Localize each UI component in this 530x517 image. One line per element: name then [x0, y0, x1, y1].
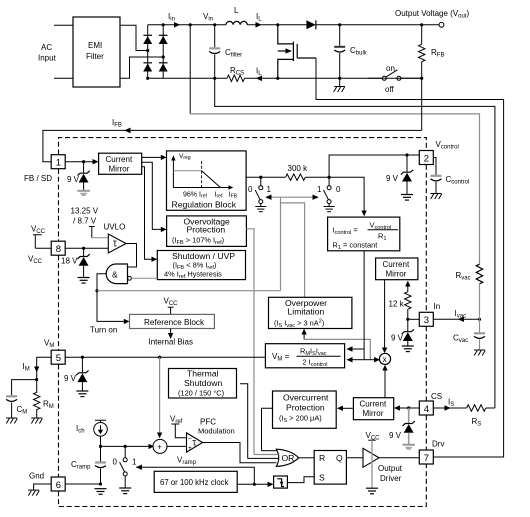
graph dashed threshold [201, 161, 203, 188]
wire RFB to IFB line [421, 78, 423, 130]
junction bridge top right [162, 23, 165, 26]
wire AC input bottom [54, 77, 73, 79]
svg-text:+: + [157, 443, 162, 452]
wire pin2 to switch node [329, 155, 419, 177]
driver buffer [363, 448, 379, 467]
wire CM3 to overcurrent [342, 407, 353, 409]
arrow into overpower bottom [303, 334, 305, 340]
wire Icontrol to multiplier and VM [363, 251, 365, 360]
svg-text:−: − [188, 436, 192, 443]
svg-text:Output: Output [378, 464, 403, 473]
svg-text:0: 0 [113, 458, 118, 467]
ground 9V pin5 [76, 391, 88, 397]
junction bridge left mid [146, 49, 149, 52]
junction pin6 wire [99, 482, 102, 485]
ground Cvac [474, 350, 485, 356]
zener 9V pin4 (gray) [403, 408, 415, 450]
ground ramp switch [119, 488, 131, 494]
junction RFB top [420, 23, 423, 26]
capacitor Cramp [95, 446, 106, 484]
ground driver [366, 488, 378, 494]
pin 1 FB/SD [51, 155, 65, 169]
resistor RCS [227, 75, 244, 81]
comparator PFC modulation [187, 433, 203, 452]
svg-text:R: R [319, 453, 325, 463]
Vcc tap driver [368, 439, 375, 441]
junction Cbulk top [338, 23, 341, 26]
svg-text:300 k: 300 k [288, 164, 309, 173]
wire comparator to OR [203, 443, 277, 463]
latch RS [314, 451, 346, 485]
wire pin1 to current mirror [65, 161, 93, 163]
svg-text:9 V: 9 V [67, 175, 80, 184]
resistor Rvac [476, 264, 482, 284]
block overvoltage protection [167, 216, 247, 247]
block clock [154, 471, 237, 492]
block current mirror 3 [353, 398, 393, 420]
wire Rvac to node (gray) [479, 284, 481, 319]
junction CS zener [407, 406, 410, 409]
svg-text:1: 1 [132, 458, 137, 467]
wire UVLO out to AND [126, 244, 137, 268]
pin 8 Vcc [51, 241, 65, 255]
switch regulation left [255, 178, 263, 206]
EMI filter block [73, 17, 120, 87]
junction CM RM [35, 378, 38, 381]
oneshot block [274, 476, 288, 488]
summer [153, 439, 167, 453]
svg-text:1: 1 [317, 185, 322, 194]
zener 18V [77, 248, 89, 277]
svg-text:Current: Current [383, 260, 410, 269]
wire node to Icontrol block [329, 177, 364, 211]
wire driver to pin7 [379, 457, 419, 459]
block current mirror 2 [376, 258, 418, 280]
svg-text:CS: CS [431, 392, 442, 401]
gate OR [276, 449, 298, 466]
pin 5 VM [51, 350, 65, 364]
pin 3 In [419, 312, 433, 326]
junction switch right node [328, 176, 331, 179]
svg-text:(120 / 150 °C): (120 / 150 °C) [178, 389, 224, 398]
arrow internal bias [170, 329, 172, 334]
IC boundary dashed box [59, 138, 427, 155]
ground Cramp [95, 489, 107, 495]
ground Ccontrol [431, 194, 442, 200]
svg-text:Driver: Driver [380, 474, 402, 483]
junction switch left [259, 176, 262, 179]
bubble AND inverted input [128, 276, 132, 280]
svg-text:Thermal: Thermal [187, 369, 219, 379]
wire UVLO threshold (gray) [92, 237, 110, 239]
wire Q to driver [346, 457, 363, 459]
svg-text:Mirror: Mirror [109, 164, 130, 173]
svg-text:9 V: 9 V [64, 374, 77, 383]
svg-text:Input: Input [38, 54, 57, 63]
svg-text:Drv: Drv [432, 440, 444, 449]
svg-text:Gnd: Gnd [29, 472, 44, 481]
Vcc tap to pin8 wire [33, 235, 51, 249]
wire summer to comparator [167, 445, 187, 447]
svg-text:Iref: Iref [215, 192, 224, 200]
wire thermal to OR [240, 384, 248, 459]
wire clock to ramp switch [136, 467, 254, 484]
wire pin8 to UVLO [65, 247, 110, 249]
junction RFB bottom [420, 77, 423, 80]
junction Rvac Cvac [478, 318, 481, 321]
wire bottom rail left part [148, 77, 227, 79]
junction pin1 zener [82, 160, 85, 163]
wire shutdown to AND (gray) [131, 277, 157, 279]
wire IFB feedback line [43, 130, 422, 161]
block overpower limitation [269, 297, 352, 328]
junction clock branch [253, 483, 256, 486]
svg-text:x: x [383, 355, 387, 364]
wire gray VM to summer [159, 357, 161, 433]
ground 18V zener [78, 278, 90, 284]
current source Ich [94, 420, 108, 446]
ground 9V pin3 [402, 346, 414, 352]
svg-text:1: 1 [267, 185, 272, 194]
ground pin1 zener [77, 191, 90, 196]
wire In pin inside [408, 318, 420, 320]
svg-text:9 V: 9 V [386, 174, 399, 183]
svg-text:UVLO: UVLO [104, 223, 126, 232]
capacitor Cvac [474, 319, 485, 349]
junction bridge right mid [162, 55, 165, 58]
zener 9V pin3 [402, 319, 414, 345]
arrow Iin [174, 22, 180, 28]
wire pin6 left ground [34, 484, 52, 490]
resistor RM [34, 380, 40, 418]
svg-text:Limitation: Limitation [288, 307, 325, 317]
Vcc tap ref block [168, 307, 174, 314]
junction ramp switch [124, 445, 127, 448]
transistor Q1 MOSFET [278, 25, 316, 79]
wire current sense line to Rs [215, 78, 495, 408]
svg-text:3: 3 [424, 315, 429, 326]
junction turn-on gray net [95, 289, 98, 292]
switch regulation right [324, 178, 332, 206]
svg-text:67 or 100 kHz clock: 67 or 100 kHz clock [160, 478, 229, 487]
svg-text:9 V: 9 V [389, 431, 402, 440]
svg-text:13.25 V: 13.25 V [71, 207, 99, 216]
svg-text:0: 0 [336, 185, 341, 194]
block current mirror 1 [99, 153, 142, 174]
junction pin5 zener [81, 356, 84, 359]
wire pin4 to Rs [433, 407, 466, 409]
multiplier X [379, 353, 390, 364]
graph slope [202, 171, 221, 188]
bridge rectifier left column [147, 25, 149, 79]
svg-text:12 k: 12 k [389, 300, 405, 309]
wire gray net horizontal [97, 290, 281, 292]
diode boost [306, 20, 316, 29]
svg-text:S: S [319, 473, 325, 483]
svg-text:Internal Bias: Internal Bias [149, 338, 193, 347]
ground pin6 [28, 490, 39, 496]
zener 9V pin1 [77, 162, 89, 190]
svg-text:on: on [386, 64, 395, 73]
comparator UVLO U2 [108, 234, 126, 253]
Vref tap [171, 424, 186, 438]
graph axes [173, 160, 229, 188]
wire Vin sense to Rvac (gray) [190, 114, 479, 264]
wire CM1 to overvoltage [142, 162, 162, 229]
terminal Vout [439, 22, 444, 27]
wire CM1 to shutdown [142, 167, 153, 260]
wire gray overvoltage to OR [246, 229, 254, 455]
svg-text:+: + [188, 445, 192, 452]
wire AND out turn-on [97, 274, 125, 322]
svg-text:In: In [434, 302, 441, 311]
svg-text:4: 4 [424, 404, 429, 415]
junction pin2 zener [405, 153, 408, 156]
svg-text:Shutdown: Shutdown [184, 378, 222, 388]
wire rail after diode [316, 24, 439, 26]
pin 7 Drv [419, 450, 433, 464]
wire pin5 left to CM RM [37, 357, 52, 379]
junction bridge bottom left [146, 77, 149, 80]
block overcurrent protection [273, 391, 337, 428]
arrow IFB [124, 128, 130, 134]
diode bridge D4 [159, 63, 168, 72]
wire pin6 to Cramp ground [65, 483, 100, 485]
junction Vin node [213, 23, 216, 26]
svg-text:(IS Ivac > 3 nA2): (IS Ivac > 3 nA2) [274, 319, 324, 329]
wire pin3 to Rvac node [433, 318, 479, 320]
block VM formula [265, 344, 344, 368]
wire EMI to bridge right leg [120, 57, 163, 78]
svg-text:Regulation Block: Regulation Block [172, 200, 237, 210]
wire CM2 to multiplier [384, 280, 386, 348]
zener 9V pin5 [76, 357, 88, 390]
UVLO threshold tap [89, 227, 95, 238]
svg-text:Mirror: Mirror [386, 269, 407, 278]
wire oneshot to S [287, 477, 314, 483]
svg-text:AC: AC [41, 43, 52, 52]
wire clock to oneshot [237, 483, 268, 485]
resistor 12k column [407, 286, 409, 292]
capacitor Ccontrol [431, 158, 442, 194]
junction Ich Cramp [99, 445, 102, 448]
wire CM1 to regulation block [142, 156, 162, 158]
ground 9V pin2 [401, 195, 413, 201]
switch on/off [368, 70, 422, 81]
junction Iin sense [189, 23, 192, 26]
svg-text:L: L [234, 6, 239, 15]
svg-text:Shutdown / UVP: Shutdown / UVP [172, 251, 235, 261]
block reference [130, 314, 215, 328]
svg-text:PFC: PFC [200, 418, 216, 427]
junction gray to summer [158, 356, 161, 359]
wire Vin sense vertical [189, 25, 191, 114]
wire AC input top [54, 24, 73, 26]
svg-text:&: & [112, 269, 118, 279]
svg-text:Overcurrent: Overcurrent [283, 393, 329, 403]
svg-text:off: off [385, 85, 395, 94]
svg-text:Q: Q [336, 453, 343, 463]
svg-text:Current: Current [360, 400, 387, 409]
svg-text:Filter: Filter [86, 52, 104, 61]
svg-text:Vreg: Vreg [179, 153, 191, 161]
svg-text:1: 1 [56, 158, 61, 169]
svg-text:Turn on: Turn on [90, 326, 117, 335]
svg-text:6: 6 [56, 480, 61, 491]
svg-text:Mirror: Mirror [363, 409, 384, 418]
svg-text:OR: OR [282, 453, 295, 463]
capacitor CM [6, 380, 37, 418]
junction pin8 zener [82, 247, 85, 250]
svg-text:5: 5 [56, 353, 61, 364]
junction MOSFET source [276, 77, 279, 80]
ground CM [6, 418, 17, 424]
svg-text:96% Iref: 96% Iref [183, 192, 208, 200]
pin 2 Vcontrol [419, 151, 433, 165]
switch ramp [120, 446, 128, 487]
junction MOSFET drain [276, 23, 279, 26]
ground RM [31, 418, 42, 424]
svg-text:IFB: IFB [229, 192, 238, 200]
svg-text:Current: Current [106, 155, 133, 164]
ground right switch [324, 207, 335, 212]
svg-text:/ 8.7 V: / 8.7 V [73, 217, 97, 226]
arrow IL top [256, 22, 262, 28]
arrow IM [34, 367, 39, 373]
wire gray control elbow to overpower [281, 203, 305, 297]
resistor 300k [286, 174, 306, 180]
svg-text:Protection: Protection [286, 403, 325, 413]
wire 300k line [246, 176, 329, 178]
wire gate to Drv pin [316, 58, 504, 457]
svg-text:Reference Block: Reference Block [144, 318, 205, 327]
diode bridge D3 [143, 63, 152, 72]
svg-text:0: 0 [248, 185, 253, 194]
block regulation [167, 151, 247, 210]
wire gray control vertical [280, 197, 282, 291]
capacitor Cfilter [209, 25, 220, 79]
junction Cfilter bottom [213, 77, 216, 80]
svg-text:8: 8 [56, 244, 61, 255]
arrow IL bottom [256, 76, 262, 82]
svg-text:7: 7 [424, 453, 429, 464]
junction Cbulk bottom [338, 77, 341, 80]
svg-text:Protection: Protection [187, 225, 226, 235]
svg-text:FB / SD: FB / SD [24, 174, 52, 183]
wire gray switch control arrows [270, 196, 315, 198]
wire CM3 to multiplier bottom [384, 370, 386, 398]
gate AND U3 [106, 264, 127, 284]
wire ramp node [101, 445, 152, 447]
wire bottom rail right part [245, 77, 422, 79]
diode bridge D1 [143, 35, 152, 44]
junction 12k zener [406, 318, 409, 321]
pin 4 CS [419, 401, 433, 415]
wire top rail [148, 24, 226, 26]
inductor L [226, 21, 247, 24]
wire gray overpower to multiplier [304, 339, 370, 359]
wire overcurrent to OR [262, 408, 273, 450]
wire rail after L [247, 24, 306, 26]
capacitor Cbulk [334, 25, 345, 79]
wire OR output [299, 457, 315, 459]
block thermal shutdown [169, 369, 237, 399]
block Icontrol formula [328, 217, 400, 251]
svg-text:18 V: 18 V [61, 257, 78, 266]
wire pin5 to VM block [65, 356, 265, 358]
diode bridge D2 [159, 35, 168, 44]
svg-text:2: 2 [424, 153, 429, 164]
svg-text:Modulation: Modulation [198, 427, 235, 436]
wire EMI to bridge left leg [120, 25, 148, 50]
bridge rectifier right column [162, 25, 164, 79]
resistor Rs [467, 405, 486, 411]
zener 9V pin2 [401, 155, 413, 194]
wire CS pin to CM3 [399, 407, 419, 409]
svg-text:4% Iref Hysteresis: 4% Iref Hysteresis [164, 270, 222, 280]
pin 6 Gnd [51, 477, 65, 491]
svg-text:9 V: 9 V [391, 334, 404, 343]
block shutdown / UVP [157, 251, 245, 280]
wire OR inputs stubs [262, 450, 278, 452]
graph level line [173, 170, 201, 172]
svg-text:EMI: EMI [88, 41, 102, 50]
ground below Cbulk [334, 78, 345, 92]
ground left switch [255, 207, 266, 212]
resistor RFB [419, 25, 425, 79]
